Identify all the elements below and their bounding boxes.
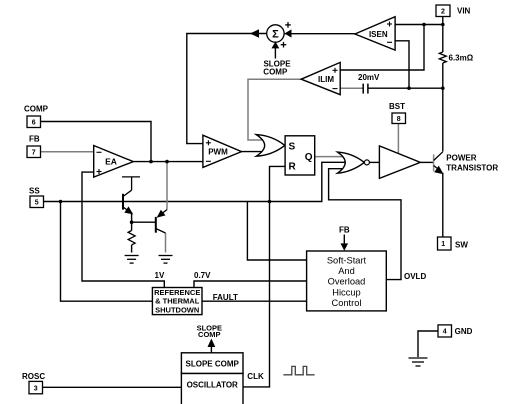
- svg-text:Soft-Start: Soft-Start: [327, 255, 367, 265]
- svg-text:SHUTDOWN: SHUTDOWN: [155, 305, 199, 314]
- svg-text:3: 3: [34, 385, 38, 392]
- svg-text:FB: FB: [29, 135, 40, 144]
- svg-text:Σ: Σ: [272, 29, 279, 41]
- svg-text:VIN: VIN: [457, 7, 471, 16]
- svg-text:7: 7: [32, 150, 36, 157]
- svg-text:REFERENCE: REFERENCE: [154, 288, 200, 297]
- svg-text:TRANSISTOR: TRANSISTOR: [446, 164, 498, 173]
- svg-text:6.3mΩ: 6.3mΩ: [449, 54, 474, 63]
- svg-text:6: 6: [32, 120, 36, 127]
- svg-text:CLK: CLK: [247, 372, 264, 381]
- svg-text:ILIM: ILIM: [318, 75, 334, 84]
- svg-text:COMP: COMP: [263, 67, 288, 76]
- svg-text:1V: 1V: [155, 271, 165, 280]
- svg-text:R: R: [289, 162, 297, 173]
- svg-text:1: 1: [441, 241, 445, 248]
- svg-text:SW: SW: [455, 241, 468, 250]
- svg-text:PWM: PWM: [208, 148, 228, 157]
- svg-text:ISEN: ISEN: [369, 30, 388, 39]
- svg-text:EA: EA: [105, 156, 117, 166]
- svg-text:And: And: [338, 266, 355, 276]
- svg-text:5: 5: [35, 200, 39, 207]
- svg-text:Overload: Overload: [328, 277, 366, 287]
- svg-text:GND: GND: [455, 327, 473, 336]
- svg-text:S: S: [289, 142, 296, 153]
- svg-text:FB: FB: [339, 226, 350, 235]
- svg-text:FAULT: FAULT: [213, 293, 238, 302]
- svg-text:4: 4: [443, 329, 447, 336]
- svg-text:& THERMAL: & THERMAL: [155, 297, 200, 306]
- svg-text:OVLD: OVLD: [404, 272, 426, 281]
- svg-text:BST: BST: [389, 102, 405, 111]
- svg-text:20mV: 20mV: [358, 73, 380, 82]
- svg-text:8: 8: [397, 116, 401, 123]
- svg-text:Control: Control: [332, 298, 362, 308]
- svg-text:SLOPE COMP: SLOPE COMP: [186, 360, 240, 369]
- svg-text:COMP: COMP: [198, 330, 221, 339]
- svg-text:0.7V: 0.7V: [194, 271, 211, 280]
- svg-text:Hiccup: Hiccup: [332, 287, 360, 297]
- svg-text:COMP: COMP: [24, 105, 49, 114]
- svg-text:ROSC: ROSC: [22, 372, 45, 381]
- svg-text:2: 2: [441, 9, 445, 16]
- svg-text:SS: SS: [29, 187, 40, 196]
- svg-text:OSCILLATOR: OSCILLATOR: [187, 380, 238, 389]
- svg-text:POWER: POWER: [446, 154, 476, 163]
- svg-text:Q: Q: [305, 152, 313, 163]
